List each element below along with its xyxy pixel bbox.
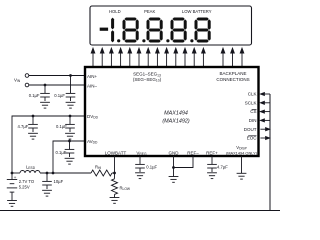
svg-text:CONNECTIONS: CONNECTIONS — [216, 77, 249, 82]
capacitor C7 0.1uF on VREG — [135, 156, 145, 172]
LCD digit 8 (first) — [123, 18, 139, 43]
svg-text:0.1µF: 0.1µF — [56, 150, 67, 155]
capacitor C4 0.1uF — [65, 116, 75, 132]
svg-text:LOW BATTERY: LOW BATTERY — [182, 9, 212, 14]
wire CS with input arrow — [260, 110, 270, 113]
ground for VDISP — [237, 173, 247, 179]
svg-text:4.7µF: 4.7µF — [217, 165, 228, 170]
wire DOUT with output arrow — [260, 128, 269, 131]
capacitor C5 0.1uF — [65, 141, 75, 157]
svg-text:RHI: RHI — [95, 164, 101, 170]
LCD decimal point 4 — [190, 39, 193, 42]
ground for C5 — [65, 158, 75, 164]
backplane drive arrows — [221, 48, 244, 67]
AVDD supply wire — [53, 141, 84, 173]
svg-text:GND: GND — [169, 150, 180, 155]
ground for R_LOW — [110, 198, 120, 204]
svg-text:0.1µF: 0.1µF — [29, 93, 40, 98]
svg-text:(MAX1494 ONLY): (MAX1494 ONLY) — [226, 150, 258, 155]
battery B1 — [7, 173, 17, 201]
svg-text:PEAK: PEAK — [144, 9, 155, 14]
svg-text:0.1µF: 0.1µF — [54, 93, 65, 98]
wire CLK with input arrow — [260, 93, 270, 96]
svg-text:CLK: CLK — [248, 92, 257, 97]
wire EOC with output arrow — [260, 137, 269, 140]
svg-text:VREG: VREG — [136, 150, 147, 156]
ground for battery — [7, 201, 17, 207]
junction node rail/C4 — [69, 115, 72, 118]
LCD minus sign — [100, 28, 108, 31]
LCD decimal point 3 — [166, 39, 169, 42]
svg-text:10µF: 10µF — [54, 179, 64, 184]
svg-text:(SEG–SEG10): (SEG–SEG10) — [133, 77, 162, 83]
wire REF- to GND node — [174, 156, 194, 168]
wire R_HI to LOWBATT node — [112, 172, 115, 174]
junction node battery/rail — [11, 172, 14, 175]
LCD digit 1 — [111, 18, 114, 43]
junction node on AIN- wire — [44, 84, 47, 87]
svg-text:REF+: REF+ — [206, 150, 218, 155]
capacitor C8 4.7uF on REF+ — [207, 156, 217, 172]
ground for C4 — [65, 133, 75, 139]
ground for C2 — [66, 102, 76, 108]
svg-text:DOUT: DOUT — [244, 127, 257, 132]
LCD digit 8 (second) — [147, 18, 163, 43]
svg-text:0.1µF: 0.1µF — [146, 165, 157, 170]
svg-text:CS: CS — [250, 109, 256, 114]
svg-text:5.25V: 5.25V — [19, 185, 30, 190]
input terminal circle AIN+ — [25, 74, 29, 78]
resistor R_LOW — [114, 173, 116, 179]
svg-text:EOC: EOC — [247, 136, 258, 141]
svg-text:4.7µF: 4.7µF — [18, 124, 29, 129]
svg-text:DVDD: DVDD — [87, 114, 99, 120]
junction node 10uF cap — [46, 172, 49, 175]
svg-text:AIN–: AIN– — [87, 84, 98, 89]
svg-text:VIN: VIN — [14, 78, 21, 84]
svg-text:AIN+: AIN+ — [87, 74, 98, 79]
junction node GND/REF- — [172, 166, 175, 169]
LCD decimal point 2 — [142, 39, 145, 42]
wire AIN- — [29, 84, 84, 86]
ground for C6 — [42, 190, 52, 196]
capacitor C6 10uF — [42, 173, 52, 189]
ground for C1 — [40, 102, 50, 108]
bottom border wire — [0, 210, 280, 212]
ground for GND pin — [169, 177, 179, 183]
junction node rail/C3 — [32, 115, 35, 118]
svg-text:+: + — [14, 176, 17, 181]
wire LOWBATT pin — [114, 156, 116, 173]
junction node on AIN+ wire — [69, 74, 72, 77]
svg-text:2.7V TO: 2.7V TO — [19, 179, 35, 184]
svg-text:SCLK: SCLK — [245, 100, 257, 105]
LCD digit 8 (fourth) — [195, 18, 211, 43]
svg-text:AVDD: AVDD — [87, 139, 98, 145]
capacitor C1 0.1uF — [40, 85, 50, 101]
junction node LOWBATT — [113, 172, 116, 175]
svg-text:MAX1494: MAX1494 — [164, 111, 188, 117]
svg-text:0.1µF: 0.1µF — [56, 124, 67, 129]
ground for C7 — [135, 173, 145, 179]
LCD display module box — [90, 6, 252, 45]
svg-text:LOWBATT: LOWBATT — [105, 150, 127, 155]
segment drive arrows SEG1-SEG13 — [91, 48, 205, 67]
svg-text:HOLD: HOLD — [109, 9, 121, 14]
DVDD supply rail wire — [12, 116, 84, 173]
wire AIN+ — [29, 75, 84, 77]
svg-text:RLOW: RLOW — [120, 186, 131, 192]
LCD decimal point 1 — [117, 39, 120, 42]
wire inductor to R_HI — [40, 172, 91, 174]
svg-text:DIN: DIN — [249, 118, 257, 123]
bottom supply rail wire — [12, 172, 20, 174]
serial bus vertical wire — [269, 94, 271, 211]
LCD digit 8 (third) — [171, 18, 187, 43]
wire DIN with input arrow — [260, 119, 270, 122]
capacitor C2 0.1uF (from AIN+ wire, crossing AIN- wire) — [66, 76, 76, 102]
svg-text:BACKPLANE: BACKPLANE — [219, 71, 246, 76]
wire SCLK with input arrow — [260, 101, 270, 104]
wire GND pin — [173, 156, 175, 177]
svg-text:REF–: REF– — [187, 150, 199, 155]
svg-text:(MAX1492): (MAX1492) — [162, 119, 189, 125]
capacitor C3 4.7uF — [28, 116, 38, 132]
input terminal circle AIN- — [25, 83, 29, 87]
wire R_LOW to ground — [114, 194, 116, 197]
ground for C8 — [207, 173, 217, 179]
ground for C3 — [28, 133, 38, 139]
svg-text:LESD: LESD — [26, 164, 36, 170]
junction node AVDD riser — [52, 172, 55, 175]
IC U1 MAX1494/MAX1492 body — [85, 67, 259, 156]
junction node AVDD/C5 — [68, 140, 71, 143]
wire VDISP pin — [241, 156, 243, 173]
